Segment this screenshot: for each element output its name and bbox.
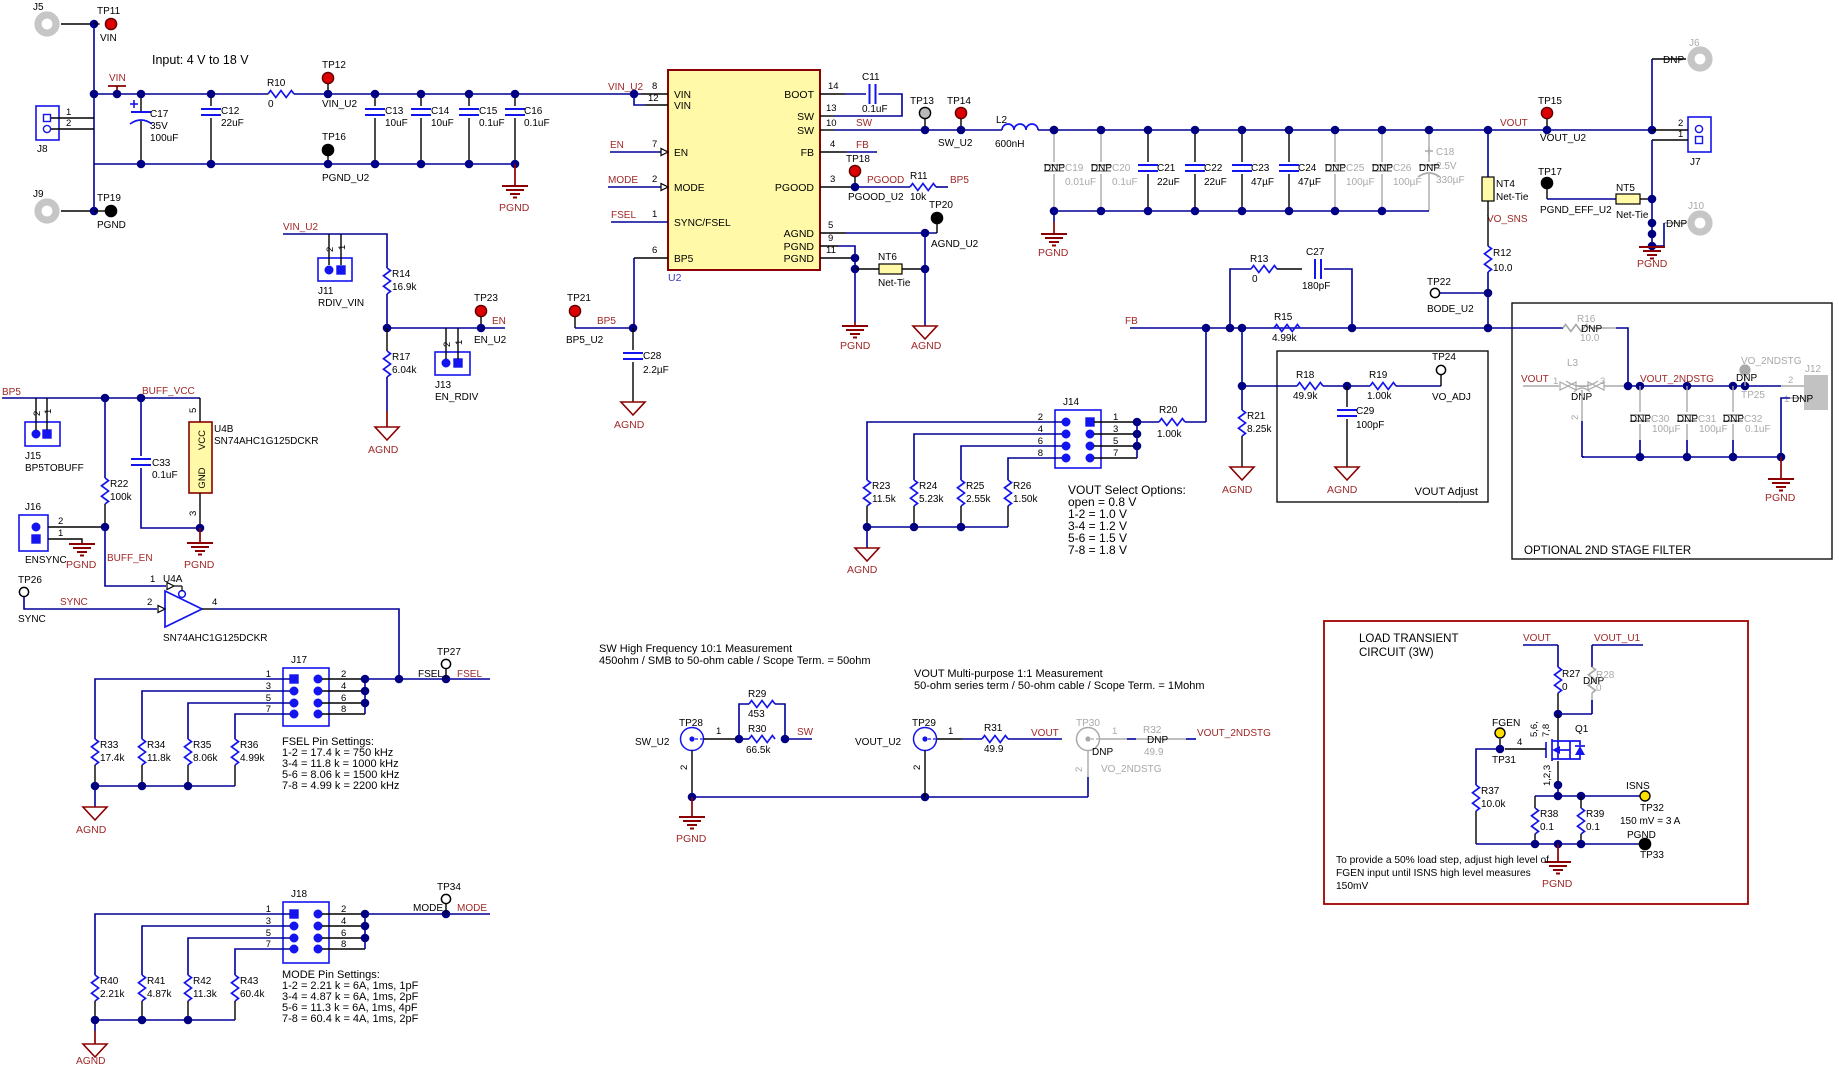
svg-text:R24: R24 [919,481,938,492]
svg-text:R10: R10 [267,78,286,89]
svg-text:FSEL: FSEL [457,669,482,680]
svg-text:AGND: AGND [76,1056,105,1066]
wire J17 pin7 to R36 [235,714,290,739]
box VOUT Adjust [1277,351,1488,502]
svg-text:R20: R20 [1159,405,1178,416]
ground AGND VOUT select [855,548,879,561]
svg-text:TP28: TP28 [679,718,703,729]
svg-text:49.9: 49.9 [1144,747,1164,758]
wire MODE AGND bus [95,1020,235,1031]
svg-text:1: 1 [150,574,155,585]
svg-text:SN74AHC1G125DCKR: SN74AHC1G125DCKR [163,633,268,644]
svg-text:TP27: TP27 [437,647,461,658]
svg-text:1,2,3: 1,2,3 [1542,765,1553,786]
svg-text:PGND: PGND [1038,247,1069,259]
svg-text:TP19: TP19 [97,193,121,204]
svg-text:Q1: Q1 [1575,724,1589,735]
svg-text:2: 2 [442,342,453,347]
svg-text:0.01uF: 0.01uF [1065,177,1096,188]
wire BP5 pin to BP5 node [633,258,635,328]
wire J12 pin1 to PGND [1790,397,1804,399]
pin 7 EN [610,151,661,153]
header J18 MODE select [283,902,329,963]
svg-text:BOOT: BOOT [784,89,814,101]
svg-text:C16: C16 [524,106,543,117]
svg-text:J13: J13 [435,380,452,391]
capacitor C17 100uF input bulk [140,94,142,112]
svg-text:R14: R14 [392,269,411,280]
svg-text:DNP: DNP [1091,163,1112,174]
resistor R26 1.50k [1005,480,1012,506]
svg-text:5: 5 [188,408,199,413]
svg-text:C20: C20 [1112,163,1131,174]
svg-text:VOUT_2NDSTG: VOUT_2NDSTG [1640,374,1714,385]
svg-text:TP25: TP25 [1741,390,1765,401]
connector J7 output terminal [1688,117,1711,152]
svg-text:C18: C18 [1436,147,1455,158]
resistor R40 2.21k [92,975,99,1001]
pin 5 AGND [820,232,846,234]
svg-text:AGND: AGND [784,228,815,240]
wire J17 pin1 to R33 [95,679,290,739]
svg-text:5.23k: 5.23k [919,494,944,505]
svg-text:3: 3 [188,511,199,516]
resistor R21 8.25k [1239,410,1246,436]
svg-text:2: 2 [147,597,152,608]
svg-text:FSEL: FSEL [418,669,443,680]
svg-text:VOUT_2NDSTG: VOUT_2NDSTG [1197,728,1271,739]
svg-text:VOUT Adjust: VOUT Adjust [1415,486,1478,498]
svg-text:12: 12 [648,93,659,104]
net tie NT6 [855,268,879,270]
connector J6 DNP jack [1691,50,1709,68]
svg-text:1.00k: 1.00k [1367,391,1392,402]
svg-text:2: 2 [1678,118,1683,129]
svg-text:DNP: DNP [1092,747,1113,758]
svg-text:SW High Frequency 10:1 Measure: SW High Frequency 10:1 Measurement [599,643,792,655]
svg-text:SN74AHC1G125DCKR: SN74AHC1G125DCKR [214,436,319,447]
svg-text:VOUT_U2: VOUT_U2 [855,737,902,748]
svg-text:BODE_U2: BODE_U2 [1427,304,1474,315]
svg-text:PGND: PGND [97,220,126,231]
svg-text:DNP: DNP [1630,414,1651,425]
svg-text:DNP: DNP [1325,163,1346,174]
wire measurement ground bus [692,796,1088,798]
svg-text:BP5_U2: BP5_U2 [566,335,604,346]
capacitor C13 10uF [374,94,376,106]
svg-text:600nH: 600nH [995,139,1024,150]
svg-text:R23: R23 [872,481,891,492]
ground PGND at J7 [1639,246,1665,248]
ground PGND under NT6 [854,322,856,326]
svg-text:11: 11 [826,245,836,256]
svg-text:VO_2NDSTG: VO_2NDSTG [1101,764,1162,775]
svg-text:AGND: AGND [1222,484,1253,496]
svg-text:VOUT: VOUT [1521,374,1549,385]
svg-text:2: 2 [66,118,71,129]
wire J16 pin2 BUFF_EN node [48,526,105,528]
svg-text:VIN: VIN [674,101,691,112]
svg-text:3: 3 [830,174,835,185]
svg-text:MODE: MODE [413,903,443,914]
wire FB to divider [1241,328,1243,410]
resistor R24 5.23k [911,480,918,506]
svg-text:100pF: 100pF [1356,420,1384,431]
connector TP28 SMB SW_U2 [681,728,704,751]
test point TP13 SW_U2 [919,107,930,118]
svg-text:VIN_U2: VIN_U2 [283,222,318,233]
svg-text:Net-Tie: Net-Tie [878,278,911,289]
svg-text:J8: J8 [37,144,48,155]
svg-text:AGND_U2: AGND_U2 [931,239,979,250]
header J14 VOUT select [1055,410,1101,468]
svg-text:R39: R39 [1586,809,1605,820]
svg-text:2: 2 [652,174,657,185]
wire FB to R20 [1205,328,1207,422]
svg-text:22uF: 22uF [221,118,244,129]
wire J18 even pins common MODE [322,913,365,915]
svg-text:TP26: TP26 [18,575,42,586]
svg-text:LOAD TRANSIENT: LOAD TRANSIENT [1359,633,1458,645]
wire J17 pin3 to R34 [142,691,290,739]
resistor R28 0 DNP [1591,645,1593,667]
svg-text:4: 4 [212,597,217,608]
wire SYNC to U4A input [24,597,157,609]
svg-text:SYNC: SYNC [60,597,88,608]
svg-text:C26: C26 [1393,163,1412,174]
svg-text:VOUT: VOUT [1500,118,1528,129]
wire J14 pins 3 5 7 common [1094,433,1137,435]
connector TP30 SMB DNP [1077,728,1100,751]
test point TP14 SW_U2 [955,107,966,118]
svg-text:SW_U2: SW_U2 [938,138,973,149]
wire J14 pin2 to R23 [867,422,1062,480]
svg-text:FGEN: FGEN [1492,718,1520,729]
capacitor C33 0.1uF [140,398,142,456]
pin 3 PGOOD [820,186,855,188]
pin 2 MODE [608,186,661,188]
svg-text:NT5: NT5 [1616,183,1635,194]
svg-text:J5: J5 [33,2,44,13]
svg-text:C21: C21 [1157,163,1176,174]
test point TP26 SYNC [19,587,28,596]
resistor R38 0.1 sense [1534,796,1536,808]
svg-text:2.5V: 2.5V [1436,161,1457,172]
resistor R43 60.4k [232,975,239,1001]
wire J14 pin4 to R24 [914,434,1062,480]
wire ISNS bus [1535,795,1640,797]
svg-text:AGND: AGND [847,564,878,576]
svg-text:SW: SW [797,111,814,123]
svg-text:PGND: PGND [1542,878,1573,890]
ground AGND under C28 [621,402,645,415]
capacitor C18 330uF DNP polarized [1428,130,1430,162]
svg-text:BUFF_EN: BUFF_EN [107,553,153,564]
wire TP29 pin2 ground [924,751,926,798]
net tie NT5 [1547,198,1616,200]
svg-text:FB: FB [801,147,814,159]
svg-text:C11: C11 [862,72,880,83]
svg-text:Net-Tie: Net-Tie [1496,192,1529,203]
svg-text:TP15: TP15 [1538,96,1562,107]
node drain junction [1554,710,1563,719]
resistor R27 0 [1557,645,1559,667]
node VIN junction at J5 [90,20,99,29]
wire PGND_U2 bottom bus [94,163,515,165]
svg-text:R38: R38 [1540,809,1559,820]
svg-text:330µF: 330µF [1436,175,1465,186]
svg-text:AGND: AGND [368,444,399,456]
svg-text:J15: J15 [25,451,42,462]
test point TP16 PGND_U2 [322,144,333,155]
svg-text:PGOOD: PGOOD [867,175,904,186]
svg-text:VO_2NDSTG: VO_2NDSTG [1741,356,1802,367]
svg-text:17.4k: 17.4k [100,753,125,764]
svg-text:8.06k: 8.06k [193,753,218,764]
ground AGND under NT6 [913,326,937,339]
connector J8 input terminal [36,106,59,140]
svg-text:100uF: 100uF [150,133,178,144]
IC U4B buffer power [199,398,201,422]
svg-text:R25: R25 [966,481,985,492]
resistor R39 0.1 sense [1580,796,1582,808]
wire VOUT_2NDSTG rail [1628,385,1781,387]
svg-text:8: 8 [652,81,657,92]
svg-text:J6: J6 [1689,38,1700,49]
wire PGND vertical under NT6 [854,269,856,322]
svg-text:PGND: PGND [66,559,97,571]
svg-text:R28: R28 [1596,670,1615,681]
svg-text:J18: J18 [291,889,308,900]
svg-text:1: 1 [948,726,953,737]
capacitor C23 47uF [1241,130,1243,162]
svg-text:TP20: TP20 [929,200,953,211]
svg-text:2: 2 [325,247,336,252]
wire load ground bus [1476,843,1639,845]
svg-text:C29: C29 [1356,406,1375,417]
svg-text:SW: SW [797,727,814,738]
wire J14 pin8 to R26 [1008,458,1062,480]
gate wire and pin 4 [1505,748,1546,750]
svg-text:49.9: 49.9 [984,744,1004,755]
wire J7 pin1 to PGND_EFF [1652,139,1688,141]
svg-text:L2: L2 [996,115,1008,126]
test point TP11 VIN [94,23,100,25]
box optional 2nd stage filter [1512,303,1832,559]
svg-text:SYNC/FSEL: SYNC/FSEL [674,218,731,229]
svg-text:10.0: 10.0 [1493,263,1513,274]
svg-text:2: 2 [1074,767,1085,772]
wire J18 pin5 to R42 [188,938,290,975]
svg-text:PGOOD_U2: PGOOD_U2 [848,192,904,203]
resistor R36 4.99k [232,739,239,765]
svg-text:1.50k: 1.50k [1013,494,1038,505]
capacitor C12 22uF [210,94,212,106]
svg-text:BP5: BP5 [950,175,969,186]
wire J8 pin1 to VIN bus [51,117,94,119]
svg-text:BP5: BP5 [674,254,694,265]
svg-text:EN_RDIV: EN_RDIV [435,392,479,403]
box load transient circuit [1324,621,1748,904]
svg-text:VO_SNS: VO_SNS [1487,214,1528,225]
svg-text:C12: C12 [221,106,240,117]
ground AGND under C29 [1335,467,1359,480]
svg-text:R11: R11 [910,171,928,182]
svg-text:TP23: TP23 [474,293,498,304]
svg-text:RDIV_VIN: RDIV_VIN [318,298,364,309]
test point TP33 PGND [1639,838,1650,849]
svg-text:2.2µF: 2.2µF [643,365,669,376]
svg-text:10.0k: 10.0k [1481,799,1506,810]
svg-text:C13: C13 [385,106,404,117]
svg-text:TP31: TP31 [1492,755,1516,766]
resistor R29 453 divider [739,704,749,739]
svg-text:R37: R37 [1481,786,1500,797]
svg-text:EN: EN [674,148,688,159]
net label SW measurement [785,738,812,740]
ground AGND MODE [83,1044,107,1057]
svg-text:0.1uF: 0.1uF [862,104,888,115]
svg-text:J14: J14 [1063,397,1080,408]
wire BUFF_EN to U4A enable [105,527,166,586]
wire L3 tap to ground bus [1581,390,1583,421]
inductor L3 DNP [1523,385,1559,387]
svg-text:J10: J10 [1688,201,1705,212]
svg-text:35V: 35V [150,121,168,132]
wire FB rail [1130,327,1488,329]
svg-text:DNP: DNP [1663,55,1684,66]
resistor R22 100k [104,398,106,478]
wire J18 pin3 to R41 [142,926,290,975]
svg-text:SYNC: SYNC [18,614,46,625]
resistor R32 49.9 DNP [1127,738,1136,740]
svg-text:J16: J16 [25,502,42,513]
svg-text:8.25k: 8.25k [1247,424,1272,435]
svg-text:2.55k: 2.55k [966,494,991,505]
wire BP5 to buffer [2,397,200,399]
connector J9 input return jack [38,202,56,220]
svg-text:150 mV = 3 A: 150 mV = 3 A [1620,816,1681,827]
wire J14 pin6 to R25 [961,446,1062,480]
svg-text:7-8 = 1.8 V: 7-8 = 1.8 V [1068,543,1127,557]
svg-text:7,8: 7,8 [1541,724,1552,737]
node VOUT_2NDSTG [1624,382,1633,391]
capacitor C32 0.1uF DNP [1732,386,1734,412]
svg-text:EN: EN [610,140,624,151]
svg-text:TP11: TP11 [97,6,121,17]
svg-text:TP14: TP14 [947,96,971,107]
wire SW net to inductor [834,129,1002,131]
svg-text:BP5: BP5 [2,387,21,398]
svg-text:6: 6 [652,245,657,256]
capacitor C31 100uF DNP [1686,386,1688,412]
svg-text:J12: J12 [1805,364,1822,375]
resistor R19 1.00k [1347,385,1370,387]
svg-text:BP5: BP5 [597,316,616,327]
wire FB tap into adjust box [1242,385,1297,387]
ground PGND at J16 [69,543,95,545]
svg-text:4: 4 [1517,737,1522,748]
resistor R33 17.4k [92,739,99,765]
svg-text:10: 10 [826,118,837,129]
svg-text:L3: L3 [1567,358,1579,369]
svg-text:0: 0 [1596,683,1602,694]
svg-text:47µF: 47µF [1298,177,1321,188]
net tie NT4 [1487,130,1489,177]
resistor R16 10.0 DNP [1488,327,1563,329]
test point TP18 PGOOD [849,165,860,176]
svg-text:2: 2 [912,765,923,770]
resistor R15 4.99k feedback [1274,325,1300,332]
test point TP17 PGND_EFF_U2 [1541,177,1552,188]
connector J10 DNP jack [1691,214,1709,232]
svg-text:EN_U2: EN_U2 [474,335,507,346]
svg-text:22uF: 22uF [1204,177,1227,188]
svg-text:PGND: PGND [840,340,871,352]
svg-text:TP34: TP34 [437,882,461,893]
svg-text:J9: J9 [33,189,44,200]
svg-text:TP13: TP13 [910,96,934,107]
connector J12 DNP [1804,375,1828,410]
svg-text:PGND: PGND [499,202,530,214]
wire VIN vertical bus left [93,24,95,164]
resistor R20 1.00k [1185,421,1206,423]
svg-text:AGND: AGND [76,824,107,836]
svg-text:R35: R35 [193,740,212,751]
svg-text:DNP: DNP [1372,163,1393,174]
test point TP22 BODE_U2 [1430,288,1439,297]
svg-text:VCC: VCC [197,430,208,450]
svg-text:TP30: TP30 [1076,718,1100,729]
test point TP25 VO_2NDSTG DNP [1739,364,1750,375]
ground PGND load [1557,844,1559,862]
svg-text:R36: R36 [240,740,259,751]
svg-text:R19: R19 [1369,370,1388,381]
svg-text:SW: SW [856,118,873,129]
wire PGND pins to net tie NT6 [854,258,856,269]
svg-text:TP21: TP21 [567,293,591,304]
pin 10 SW [820,129,834,131]
svg-text:4.87k: 4.87k [147,989,172,1000]
svg-text:DNP: DNP [1736,373,1757,384]
resistor R12 10.0 [1487,201,1489,246]
resistor R18 49.9k [1297,383,1323,390]
svg-text:10uF: 10uF [431,118,454,129]
connector J16 ENSYNC [19,515,48,551]
svg-text:0.1: 0.1 [1586,822,1600,833]
svg-text:PGND_EFF_U2: PGND_EFF_U2 [1540,205,1612,216]
svg-text:11.5k: 11.5k [872,494,897,505]
svg-text:22uF: 22uF [1157,177,1180,188]
test point TP15 VOUT_U2 [1541,107,1552,118]
resistor R14 16.9k [384,268,391,294]
svg-text:49.9k: 49.9k [1293,391,1318,402]
svg-text:R29: R29 [748,689,767,700]
connector J11 RDIV_VIN [318,258,352,281]
svg-text:PGOOD: PGOOD [775,182,815,194]
svg-text:R13: R13 [1250,254,1269,265]
test point TP34 MODE [441,894,450,903]
svg-text:100µF: 100µF [1393,177,1422,188]
svg-text:R21: R21 [1247,411,1266,422]
test point ISNS TP32 [1640,791,1650,801]
wire EN net [387,327,505,329]
svg-text:R30: R30 [748,724,767,735]
svg-text:DNP: DNP [1147,735,1168,746]
svg-text:0: 0 [1562,682,1568,693]
connector J5 input banana jack [38,15,56,33]
svg-text:R27: R27 [1562,669,1581,680]
